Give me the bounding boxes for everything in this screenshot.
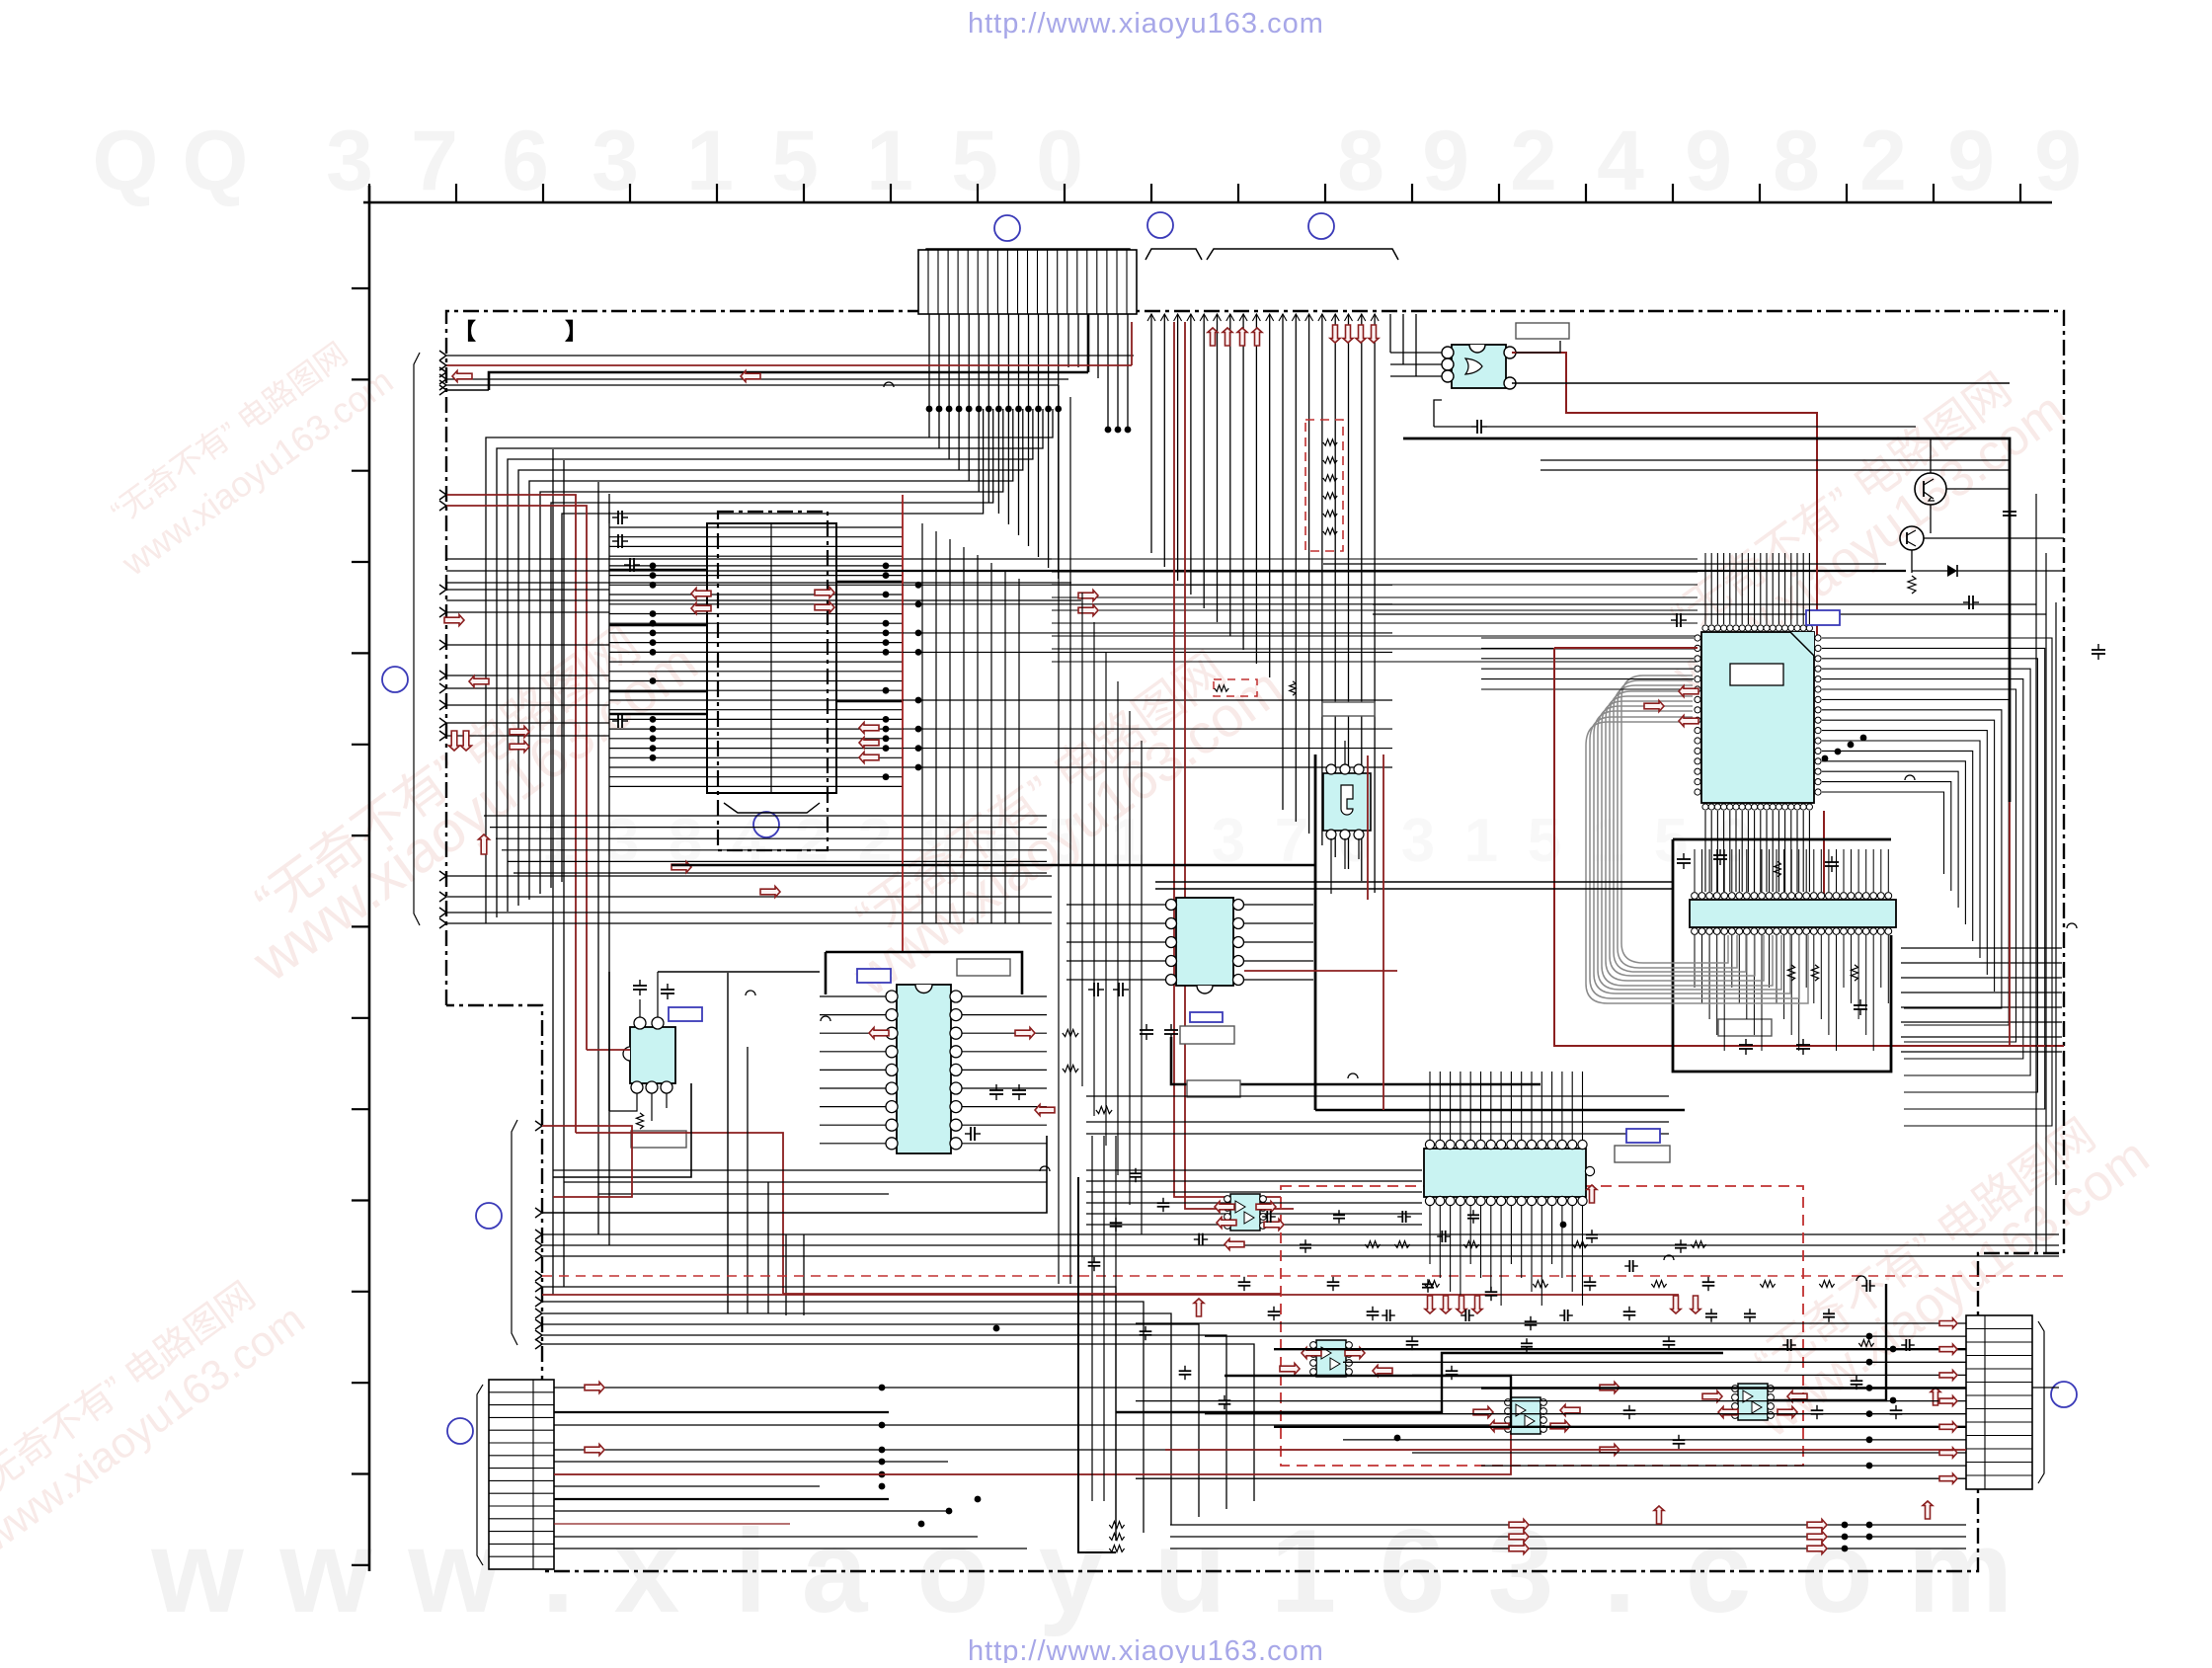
wire thick center horizontal [671, 864, 1315, 867]
wire red top bottomleft [542, 1126, 632, 1197]
svg-text:1: 1 [686, 114, 734, 208]
svg-text:【: 【 [453, 318, 476, 344]
IC U3 (wide) [1690, 893, 1896, 935]
wire red bottom mid [783, 1293, 1281, 1295]
wire red bottomleft [542, 1294, 1679, 1296]
node chevrons left low [439, 871, 446, 928]
svg-text:0: 0 [1036, 114, 1083, 208]
svg-text:3: 3 [592, 114, 639, 208]
arrow below U0 [479, 834, 781, 898]
wire red bottom right [1165, 1449, 1966, 1451]
svg-text:3: 3 [326, 114, 373, 208]
wire U2 left pins [1481, 638, 1694, 689]
wire red center a [1367, 755, 1369, 900]
watermark bottom letters [150, 1505, 2013, 1637]
wire U7 [1331, 741, 1359, 894]
wire U1 right red [1512, 353, 1817, 639]
svg-text:9: 9 [1685, 114, 1732, 208]
wire U1 top right [1516, 341, 1560, 353]
svg-text:5: 5 [771, 114, 819, 208]
resistors RD1 [1323, 439, 1337, 534]
wire red U2 vertical2 [1823, 811, 1825, 894]
arrow U0 right stack [859, 723, 879, 763]
wire black bottomleft [542, 1136, 1047, 1213]
node dot U8 [1560, 1222, 1567, 1229]
brace mid [1145, 249, 1202, 260]
arrow bottom up [1654, 1388, 1940, 1524]
wire verticals center low [1059, 385, 1116, 1541]
arrow pair center [1078, 591, 1098, 616]
node chevrons top left [439, 351, 446, 395]
wire far right verticals [2036, 494, 2056, 1253]
svg-text:6: 6 [502, 114, 549, 208]
wire top thick [489, 372, 1088, 390]
arrow CN3 col [1939, 1318, 1957, 1483]
svg-text:http://www.xiaoyu163.com: http://www.xiaoyu163.com [968, 8, 1324, 40]
svg-text:Q: Q [93, 114, 159, 208]
wire verticals right of U0 [922, 523, 1019, 923]
IC U4 (DIP-10) [1166, 898, 1244, 993]
svg-text:1: 1 [1591, 807, 1624, 875]
capacitor C1 [609, 511, 628, 524]
IC U7 (reset) [1323, 764, 1371, 839]
capacitor C10 [633, 980, 674, 999]
node dots bottom long [1842, 1522, 1873, 1552]
op-amp OA4 [1732, 1384, 1775, 1420]
wire U4 bottom [1171, 1037, 1540, 1084]
arrow OA1 [1215, 1202, 1284, 1231]
arrow U8 below [1425, 1296, 1700, 1313]
wire CN2 out [554, 1388, 2059, 1549]
arrow U2 left [1644, 686, 1698, 727]
label box U5 blue [857, 969, 891, 983]
wire top red [446, 322, 1132, 365]
svg-text:1: 1 [542, 807, 576, 875]
arrow group up mid [1208, 328, 1262, 346]
wire center horizontals right [1155, 882, 1673, 889]
wire U3 pins [1695, 849, 1888, 1051]
wire below U0 horizontals [484, 816, 1047, 873]
capacitor C7 [1963, 596, 1979, 609]
diode D1 [1912, 565, 2064, 577]
arrow OA3 [1473, 1405, 1580, 1432]
resistor R right [1908, 576, 1916, 594]
wire red vertical right [2009, 802, 2011, 1046]
ruler left line [352, 186, 369, 1571]
svg-text:3: 3 [1401, 807, 1435, 875]
wire right side horiz [1323, 460, 2046, 614]
svg-text:http://www.xiaoyu163.com: http://www.xiaoyu163.com [968, 1635, 1324, 1663]
IC U0 bottom bracket [724, 803, 820, 813]
capacitor C6 [2003, 506, 2016, 521]
wire vertical bundle center [1147, 314, 1379, 893]
label box U6 gray [631, 1131, 686, 1148]
wire CN3 in [1136, 1323, 1966, 1478]
wire U3 thick frame [1673, 839, 1891, 1072]
wire U8 pins [1430, 1072, 1583, 1306]
wire U3 left fan [1586, 935, 1808, 1003]
arrow U0 left in [691, 589, 711, 614]
svg-text:w: w [407, 1505, 501, 1637]
wire red center b [1382, 755, 1384, 1110]
page marker circle A [994, 215, 1020, 241]
op-amp OA2 [1310, 1340, 1353, 1377]
page marker circle H [2051, 1382, 2077, 1407]
resistors near U5 [1063, 1029, 1112, 1113]
capacitor cluster bottom [1088, 1168, 1903, 1449]
label box center b [1180, 1026, 1234, 1044]
capacitors near U5 [965, 983, 1129, 1141]
wire U0 thick stubs [609, 570, 903, 714]
IC U0 body [707, 523, 836, 793]
IC U0 enclosure (dash-dot) [718, 512, 828, 850]
wire thick bottom a [1116, 1353, 1723, 1412]
resistor cluster bottom [1109, 1241, 1873, 1552]
node chevrons left mid [439, 490, 446, 741]
wire bottomleft bundle [542, 1287, 1254, 1541]
bracket left tall [414, 353, 420, 925]
transistor Q2 [1900, 526, 1924, 550]
wire CN1 drops [926, 314, 1063, 579]
watermark top url [968, 8, 1324, 40]
wire U5 pins [820, 996, 1047, 1144]
watermark red diagonal 4 [1719, 1090, 2159, 1449]
wire horizontals center low [1086, 1170, 1422, 1225]
wire red dashed long [542, 1275, 2064, 1277]
svg-text:4: 4 [1597, 114, 1644, 208]
wire center horizontals low [1086, 1096, 1669, 1134]
wire stub [446, 389, 489, 391]
svg-text:2: 2 [1859, 114, 1907, 208]
wire verticals below U5 [728, 973, 804, 1315]
wire Q2 [1912, 538, 2064, 573]
IC U2 (QFP) [1695, 625, 1821, 810]
wire thick center vertical [1314, 755, 1317, 1110]
wire left low horizontals [446, 876, 1052, 923]
label box center blue [1190, 1012, 1223, 1022]
bracket label 【 】 [453, 318, 588, 344]
wire U4 right [1244, 905, 1313, 980]
node dots CN2 [879, 1325, 1401, 1528]
label box U1 [1516, 323, 1569, 339]
capacitor C2 [612, 534, 628, 548]
svg-text:w: w [278, 1505, 372, 1637]
arrow left single2 [469, 676, 489, 687]
svg-text:8: 8 [1337, 114, 1384, 208]
red dashed box RD3 [1214, 679, 1257, 696]
wire Q1 [1931, 438, 2010, 533]
connector CN1 [918, 250, 1137, 314]
brace CN2 [477, 1385, 483, 1565]
arrow OA2 [1280, 1348, 1392, 1377]
arrow U0 right out [815, 588, 834, 613]
board outline (dash-dot) [446, 311, 2064, 1571]
arrow left col double [449, 731, 472, 751]
svg-text:1: 1 [1464, 807, 1498, 875]
brace over CN1 [919, 249, 1137, 260]
capacitor C4 [612, 714, 628, 728]
node dots CN3 [1866, 1333, 1897, 1469]
arrow bottom long [1509, 1520, 1827, 1554]
svg-text:】: 】 [565, 318, 588, 344]
brace right [1207, 249, 1398, 260]
wire U1 left [1390, 314, 1442, 376]
IC U8 (wide bottom) [1424, 1140, 1595, 1205]
svg-text:8: 8 [1773, 114, 1820, 208]
arrow U8 left [1194, 1185, 1597, 1316]
resistor R2 [636, 1113, 643, 1129]
svg-text:9: 9 [2034, 114, 2082, 208]
page marker circle E [753, 812, 779, 837]
wire bottom long [1170, 1525, 1966, 1549]
node dots U2 right [1822, 735, 1867, 762]
wire red U6 [576, 1050, 783, 1294]
capacitor C9 [1140, 1024, 1178, 1040]
label box U8 blue [1626, 1129, 1660, 1143]
svg-text:0: 0 [1717, 807, 1751, 875]
wire right of U3 [1901, 948, 2062, 1052]
capacitors above U3 [1677, 849, 1839, 877]
IC U6 (DIP-5) [623, 1017, 675, 1093]
wire top horizontals [446, 356, 1134, 385]
label box U3 [1718, 1019, 1772, 1036]
wire nested left bundle [486, 409, 1053, 923]
svg-text:5: 5 [1528, 807, 1561, 875]
wire U2 top pins [1705, 553, 1809, 624]
arrow CN2 a [585, 1383, 604, 1456]
wire U2 right nest [1822, 638, 2052, 1126]
arrow U5 left [869, 1028, 889, 1039]
red dashed box RD1 [1305, 420, 1343, 551]
op-amp OA1 [1224, 1194, 1267, 1231]
wire U0 rows extended [903, 582, 1392, 771]
wire red mid vertical [902, 495, 904, 952]
label box center c [1187, 1080, 1240, 1097]
label box U8 gray [1615, 1146, 1670, 1162]
wire red U2 [1554, 648, 2064, 1046]
wire U2 left fan [1586, 675, 1693, 940]
resistor RD3 a [1215, 681, 1296, 695]
wire U5 bottom area [553, 1170, 1047, 1194]
wire thick top right [1403, 438, 2010, 802]
capacitor C3 [624, 558, 640, 572]
wire thick bottom c [1769, 1284, 1886, 1400]
bracket left lower [512, 1120, 517, 1345]
arrow group down mid [1330, 325, 1379, 343]
arrow U0 left single [444, 615, 464, 626]
wire long verticals left [553, 449, 609, 1295]
wire CN1 drops right [1068, 314, 1131, 433]
watermark red diagonal 2 [816, 620, 1295, 1008]
watermark digits row middle [542, 807, 1751, 875]
transistor Q1 [1915, 473, 1946, 505]
arrow CN2 b [1600, 1383, 1619, 1456]
red dashed box RD2 [1281, 1186, 1803, 1466]
coil marks [746, 382, 2077, 1281]
arrow OA4 [1702, 1391, 1807, 1418]
watermark red diagonal 5 [0, 1259, 313, 1561]
wire bundle to QFP [1052, 559, 1698, 662]
watermark bottom url [968, 1635, 1324, 1667]
page marker circle G [447, 1418, 473, 1444]
arrow left top [452, 371, 472, 382]
svg-text:5: 5 [951, 114, 998, 208]
label box U6 blue [669, 1007, 702, 1021]
watermark red diagonal 1 [215, 595, 709, 994]
svg-text:3: 3 [605, 807, 639, 875]
label box U5 gray [957, 959, 1010, 976]
label box U2 [1806, 610, 1840, 625]
wire red pair left [446, 495, 587, 1133]
capacitor C8 [1671, 613, 2105, 660]
wire thick bottom b [1224, 1376, 1511, 1426]
IC U0 pin rows [609, 527, 903, 786]
wire U4 left [1066, 905, 1165, 980]
wire center verticals extra [1082, 593, 1142, 1234]
bracket CN3 [2038, 1321, 2044, 1483]
svg-text:9: 9 [1947, 114, 1995, 208]
page marker circle B [1147, 212, 1173, 238]
gate IC U1 [1442, 345, 1516, 389]
wire U6 box [553, 972, 820, 1177]
svg-text:9: 9 [1422, 114, 1469, 208]
connector CN3 [1966, 1315, 2032, 1489]
IC U0 junction dots [650, 563, 890, 781]
wire U6 [609, 972, 667, 1121]
label box center a [1322, 702, 1375, 716]
watermark red diagonal 3 [1635, 345, 2075, 703]
capacitor C5 [1434, 400, 1916, 434]
op-amp OA3 [1505, 1397, 1547, 1434]
connector CN2 [489, 1380, 554, 1569]
ruler top line [363, 184, 2052, 202]
svg-text:5: 5 [1654, 807, 1688, 875]
wire thick bottom d [1078, 1177, 1116, 1552]
capacitors under U3 [1739, 965, 1867, 1055]
wire left mid horizontals [446, 559, 1081, 736]
IC U5 (DIP-18) [886, 985, 962, 1153]
page marker circle F [476, 1203, 502, 1229]
wire thick center bottom [1315, 1109, 1685, 1112]
wire U1 right black [1512, 382, 2010, 384]
wire U2 bottom pins [1705, 811, 1809, 892]
wire U5 top thick [826, 952, 1022, 994]
node chevrons left bottom [535, 1121, 542, 1349]
svg-text:w: w [150, 1505, 244, 1637]
svg-text:Q: Q [183, 114, 249, 208]
wire red CN2 [554, 1397, 1511, 1474]
svg-text:2: 2 [1510, 114, 1557, 208]
svg-text:7: 7 [411, 114, 458, 208]
capacitor cluster bottom 2 [1262, 1210, 1915, 1352]
watermark red diagonal 6 [87, 323, 400, 584]
watermark digits row [93, 114, 2082, 208]
arrow mid top [741, 371, 760, 382]
wire red center c [1244, 970, 1397, 972]
page marker circle D [382, 667, 408, 692]
wire long mid horizontals [542, 1234, 2059, 1256]
arrow U5 right [1015, 1028, 1055, 1116]
wire red pair center [1174, 322, 1294, 1209]
page marker circle C [1308, 213, 1334, 239]
arrow U0 left pair low [510, 727, 529, 753]
wire thick mid long [836, 570, 1906, 572]
